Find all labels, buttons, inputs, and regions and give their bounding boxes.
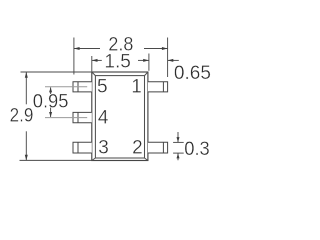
- svg-text:2.9: 2.9: [10, 106, 34, 127]
- dimension 2.9 dimension line: [25, 72, 27, 104]
- svg-text:5: 5: [97, 77, 108, 98]
- dimension 0.95 center line pin 4: [45, 117, 87, 119]
- dimension 0.95 arrows: [50, 87, 52, 94]
- svg-text:1: 1: [131, 77, 142, 98]
- pin 2 lead: [148, 142, 168, 153]
- dimension 1.5 extension line right (body edge): [148, 54, 150, 71]
- svg-text:4: 4: [98, 108, 109, 129]
- body corner chamfer top-left: [92, 72, 96, 76]
- dimension 2.9 extension line bottom (body bottom edge): [20, 159, 92, 161]
- svg-text:1.5: 1.5: [104, 52, 131, 73]
- package body inner (top-surface) outline: [95, 76, 144, 158]
- dimension 2.8 extension line right (lead tips): [167, 38, 169, 78]
- svg-text:0.3: 0.3: [184, 139, 210, 160]
- dimension 2.8 extension line left (lead tips): [73, 38, 75, 75]
- pin 1 lead: [148, 82, 168, 92]
- dimension 0.3 extension line bottom: [173, 152, 184, 154]
- dimension 0.3 arrows: [177, 132, 179, 142]
- svg-text:0.95: 0.95: [33, 91, 69, 112]
- dimension 1.5 dimension line: [92, 59, 102, 61]
- body corner chamfer bottom-left: [92, 158, 96, 161]
- body corner chamfer bottom-right: [145, 158, 148, 161]
- dimension 2.9 extension line top (body top edge): [21, 71, 92, 73]
- dimension 0.3 extension line top: [173, 141, 184, 143]
- pin 5 lead: [73, 82, 92, 92]
- pin 4 lead: [73, 112, 92, 122]
- dimension 2.8 dimension line: [74, 48, 100, 50]
- package body outer outline: [92, 72, 148, 161]
- svg-text:0.65: 0.65: [174, 63, 211, 84]
- pin 3 lead: [73, 142, 92, 153]
- dimension 1.5 extension line left (body edge): [91, 56, 93, 71]
- dimension 0.65 arrow (lead tip, pointing left): [168, 59, 179, 61]
- dimension 0.95 center line pin 5: [45, 86, 87, 88]
- svg-text:3: 3: [98, 138, 109, 159]
- svg-text:2: 2: [132, 138, 143, 159]
- body corner chamfer top-right: [145, 72, 148, 76]
